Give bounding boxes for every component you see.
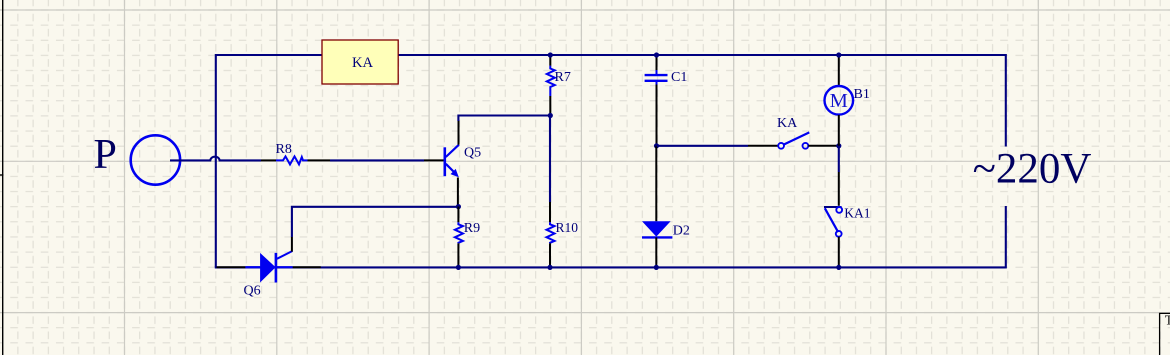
motor B1 — [825, 55, 854, 146]
wire KA contact to motor node — [808, 145, 839, 147]
svg-text:R8: R8 — [276, 142, 292, 157]
capacitor C1 — [645, 55, 668, 146]
sheet border left edge — [0, 0, 3, 355]
resistor R9 — [455, 207, 463, 268]
wire R8 to Q5 base — [330, 159, 444, 161]
wire bottom rail — [215, 266, 1006, 268]
node motor bottom junction — [836, 143, 841, 148]
svg-text:KA: KA — [777, 116, 798, 131]
node C1 top — [654, 52, 659, 57]
thyristor Q6 — [217, 237, 321, 283]
resistor R10 — [547, 202, 555, 267]
svg-text:R9: R9 — [464, 221, 480, 236]
node D2 bottom — [654, 265, 659, 270]
title block corner — [1160, 313, 1170, 355]
svg-text:R7: R7 — [555, 70, 571, 85]
node R7 top — [548, 52, 553, 57]
node R7 bottom — [548, 113, 553, 118]
svg-text:Q5: Q5 — [464, 146, 481, 161]
svg-text:T: T — [1165, 313, 1170, 328]
wire left vertical — [215, 54, 217, 267]
switch KA contact — [778, 132, 809, 148]
switch KA1 — [824, 146, 842, 268]
svg-text:D2: D2 — [673, 223, 690, 238]
resistor R7 — [547, 55, 555, 116]
diode D2 — [642, 146, 672, 268]
svg-text:C1: C1 — [671, 70, 687, 85]
svg-text:Q6: Q6 — [244, 284, 261, 299]
wire C1 junction to KA contact — [657, 145, 779, 147]
resistor R8 — [276, 156, 330, 164]
wire gate node to emitter node — [292, 207, 459, 237]
svg-text:M: M — [830, 90, 848, 112]
wire P to R8 with hop — [170, 157, 276, 161]
sensor P circle — [131, 135, 180, 184]
svg-text:B1: B1 — [854, 87, 870, 102]
wire top rail right — [398, 54, 1006, 56]
svg-text:R10: R10 — [556, 220, 579, 235]
relay coil KA — [322, 40, 398, 84]
transistor Q5 — [445, 145, 459, 178]
wire right rail lower — [1005, 206, 1007, 268]
node emitter junction — [456, 204, 461, 209]
wire Q5 collector to R7 bottom — [458, 116, 550, 145]
svg-text:KA: KA — [352, 55, 374, 71]
node KA1 bottom — [836, 265, 841, 270]
node motor top — [836, 52, 841, 57]
wire top rail left — [215, 54, 1006, 269]
node R9 bottom — [456, 265, 461, 270]
svg-text:~220V: ~220V — [973, 146, 1092, 193]
wire right rail upper — [1005, 54, 1007, 147]
svg-text:KA1: KA1 — [844, 206, 870, 221]
wire Q5 emitter down — [457, 178, 459, 207]
svg-text:P: P — [94, 132, 117, 178]
node R10 bottom — [547, 265, 552, 270]
wire R7 node to R10 — [549, 116, 551, 203]
node C1 bottom junction — [654, 143, 659, 148]
